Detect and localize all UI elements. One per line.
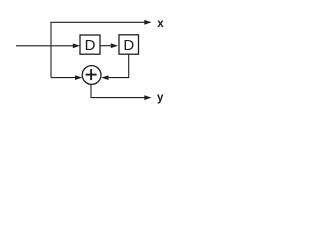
wire: top line to output x: [51, 21, 147, 23]
arrowhead into adder right: [101, 75, 108, 80]
wire: input line: [16, 45, 75, 47]
arrowhead at x: [144, 20, 151, 25]
wire: branch to adder left: [51, 77, 77, 79]
wire: adder output down and right to y: [91, 84, 146, 97]
D flip-flop 1: [80, 35, 100, 54]
svg-text:y: y: [157, 92, 164, 104]
svg-text:D: D: [123, 37, 134, 54]
arrowhead at y: [144, 95, 151, 100]
arrowhead into D1: [73, 43, 80, 48]
svg-text:x: x: [157, 18, 164, 30]
arrowhead into D2: [111, 43, 118, 48]
wire: D2 output down to adder: [107, 54, 129, 77]
wire D1 to D2: [100, 45, 112, 47]
D flip-flop 2: [119, 35, 139, 54]
adder (XOR) U1: [82, 66, 101, 85]
wire: vertical branch at node: [50, 22, 52, 77]
arrowhead into adder left: [75, 75, 82, 80]
svg-text:D: D: [85, 37, 96, 54]
